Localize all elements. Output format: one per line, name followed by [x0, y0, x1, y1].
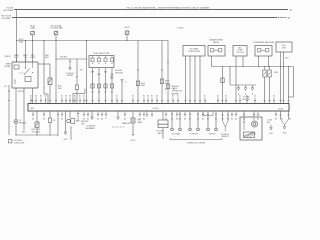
sensor connector wires [171, 112, 218, 131]
wire eld out 2 [282, 52, 284, 104]
sensor pin labels [171, 114, 217, 116]
ECM pin numbers bottom [32, 118, 291, 120]
ECM pin stubs top [30, 98, 275, 104]
pin label A26 [31, 107, 159, 110]
wire resistor to ECM [49, 85, 51, 104]
ground G101 [63, 111, 67, 141]
injector assembly box [89, 56, 114, 68]
connector C5 [75, 85, 78, 90]
svg-text:B4: B4 [289, 118, 291, 120]
spare [0, 0, 1, 1]
svg-text:(10A): (10A) [30, 27, 35, 30]
wire igniter to ECM [76, 90, 78, 104]
injector wires to ECM [91, 68, 113, 104]
svg-text:BLK: BLK [45, 57, 49, 59]
gear wire labels [185, 58, 201, 62]
wire solenoid to ground bus [36, 127, 38, 135]
svg-text:B4: B4 [139, 118, 141, 120]
svg-text:SWITCH: SWITCH [209, 133, 216, 135]
wire cond relay out 2 [268, 56, 269, 67]
wire fuse32 to main relay [32, 36, 33, 62]
svg-text:No.33: No.33 [124, 27, 129, 29]
ground G102 [131, 123, 135, 142]
label knock sensor [221, 134, 231, 138]
wire bus drop 2 [161, 41, 163, 104]
svg-text:B4: B4 [124, 118, 126, 120]
zone ref C 10/30 [177, 27, 184, 29]
svg-text:B2: B2 [215, 114, 217, 116]
label interlock system [187, 142, 205, 144]
svg-text:COOLING FAN: COOLING FAN [50, 27, 64, 30]
svg-text:CLUTCH: CLUTCH [236, 52, 244, 54]
wire fuse24 to ECM [55, 58, 57, 103]
wire O2 to ground bus [15, 124, 17, 135]
fan bus wire [212, 66, 294, 67]
svg-text:EGR CONT: EGR CONT [32, 129, 41, 131]
ECM pin stubs bottom [32, 112, 277, 117]
label radiator fan relay [209, 39, 223, 44]
svg-text:14-PIN CONN: 14-PIN CONN [14, 142, 25, 144]
label WHT BLU [165, 80, 170, 84]
wire relay out 2 [22, 88, 26, 134]
spare2 [0, 0, 1, 1]
bus wire HOT IN ON OR START [12, 17, 287, 19]
svg-text:ECM: ECM [278, 108, 283, 110]
wire PS switch [48, 111, 56, 136]
label YEL [80, 69, 83, 71]
svg-text:CONNECTOR: CONNECTOR [172, 91, 184, 93]
to tachometer arrow [65, 59, 75, 77]
wire fuse33 to bus [126, 35, 127, 41]
svg-text:B4: B4 [87, 118, 89, 120]
dashed ref wire [112, 111, 124, 127]
svg-text:2: 2 [190, 61, 191, 63]
label BLK YEL 2 [18, 91, 25, 93]
resistor box R2 [158, 120, 168, 128]
wire ignition feed to ECM [121, 80, 127, 104]
label ECM [278, 108, 283, 110]
wire ac to fan bus [242, 56, 243, 67]
label No.41 [19, 39, 23, 43]
svg-text:B4: B4 [143, 118, 145, 120]
oxygen sensor O2 [14, 120, 18, 124]
svg-text:B4: B4 [184, 118, 186, 120]
label YEL BLK [45, 55, 50, 59]
bus wire fused B+ [16, 40, 168, 41]
svg-text:A/T GEAR: A/T GEAR [190, 48, 199, 51]
to gauge assembly arrow [86, 111, 96, 130]
svg-text:OR START: OR START [2, 17, 12, 20]
wire right to ECM [287, 66, 289, 104]
A/T switch wires to ECM [184, 56, 201, 104]
svg-text:A/T GEAR: A/T GEAR [172, 132, 181, 135]
svg-text:INTERLOCK SYSTEM: INTERLOCK SYSTEM [187, 142, 205, 144]
wire color labels main relay [14, 55, 35, 59]
label EGR [32, 129, 42, 133]
wire to resistor [49, 64, 51, 78]
label fuse No.33 [124, 27, 129, 29]
svg-text:B4: B4 [32, 118, 34, 120]
wire fused B+ branch [43, 40, 48, 104]
twisted pair to knock sensor [221, 111, 229, 132]
wire bus drop 1 [137, 41, 139, 104]
injector connectors [91, 84, 114, 88]
svg-text:C10: C10 [4, 86, 7, 88]
label C101 [14, 140, 25, 144]
label MIL lamp [138, 120, 143, 124]
wire to MIL lamp [132, 111, 134, 118]
ELD unit box [276, 42, 292, 52]
bus wire HOT AT ALL TIMES [14, 9, 288, 11]
svg-text:METER: METER [67, 75, 74, 77]
wire bus drop 3 [167, 41, 169, 104]
label BLK WHT [141, 83, 146, 87]
svg-text:PGM-FI: PGM-FI [4, 56, 11, 58]
fuse No.33 [125, 30, 129, 35]
svg-text:B4: B4 [176, 118, 178, 120]
svg-text:B4: B4 [101, 118, 103, 120]
wire fused B+ to relay coil [25, 40, 26, 62]
wire relay feed right [38, 63, 50, 65]
svg-text:B4: B4 [257, 118, 259, 120]
wire tie below ECM [203, 111, 213, 116]
label HOT AT ALL TIMES [4, 7, 14, 12]
svg-text:G101: G101 [63, 139, 67, 141]
svg-text:POSITION: POSITION [190, 133, 199, 135]
net label A2 [290, 8, 292, 11]
wire elbow to ECM [72, 89, 85, 104]
pin labels A B [165, 88, 175, 91]
svg-text:ASSEMBLY: ASSEMBLY [86, 127, 96, 130]
label BLU WHT [58, 86, 62, 91]
fuse No.24 [54, 31, 58, 36]
svg-text:B2: B2 [207, 114, 209, 116]
indicator lamp MIL [131, 118, 135, 123]
fuse No.32 [31, 31, 35, 36]
svg-text:FUEL INJECTORS: FUEL INJECTORS [94, 53, 111, 55]
svg-text:B4: B4 [83, 118, 85, 120]
label GRN WHT [171, 94, 179, 96]
edge label C10 [4, 86, 7, 88]
idle air control valve IACV [240, 117, 262, 140]
wire relay out 1 [15, 88, 17, 119]
wire tach bus [56, 58, 87, 60]
svg-text:WHT: WHT [58, 88, 62, 90]
svg-text:FIG. 21 1992 ACURA INTEGRA —: FIG. 21 1992 ACURA INTEGRA — ENGINE PERF… [127, 6, 210, 9]
svg-text:B2: B2 [179, 114, 181, 116]
ECM connector strip [28, 104, 289, 112]
label O2 sensor [19, 120, 27, 124]
wire to resistor box [162, 111, 164, 120]
label HOT IN ON OR START [1, 16, 12, 20]
A/T gear position switch box [183, 46, 205, 57]
to fan motors arrows [237, 85, 254, 95]
radiator fan relay K2 [208, 46, 225, 57]
svg-text:YEL: YEL [110, 74, 113, 76]
label fuse No.32 [30, 25, 35, 29]
connector C1 [136, 81, 139, 86]
ground bus wire [15, 134, 58, 135]
svg-text:16-1 EC: 16-1 EC [153, 108, 160, 110]
svg-text:(IGN SW): (IGN SW) [115, 73, 123, 75]
title text [127, 6, 210, 9]
wires into main relay [17, 59, 26, 62]
wire fuse24 down [55, 36, 56, 59]
svg-text:BLU/: BLU/ [58, 86, 62, 88]
condenser fan relay K3 [255, 46, 272, 57]
svg-text:ALL TIMES: ALL TIMES [4, 9, 14, 12]
stubs service [146, 111, 153, 117]
svg-text:G401: G401 [282, 133, 286, 135]
resistor R1 [48, 78, 52, 85]
svg-text:B1: B1 [288, 17, 290, 19]
connector C3 [166, 84, 169, 89]
connector C2 [160, 79, 163, 84]
svg-text:(BLU): (BLU) [158, 133, 163, 135]
main relay internals [14, 62, 33, 84]
net label B1 [288, 17, 290, 19]
diode D2 [268, 67, 271, 104]
wire fan bus to ECM [221, 67, 223, 104]
svg-text:YEL/BLK: YEL/BLK [60, 56, 68, 58]
svg-text:B2: B2 [171, 114, 173, 116]
injector wire labels [91, 72, 114, 76]
wire fan motor bar [230, 67, 256, 86]
label service check connector [172, 86, 184, 93]
wires to IACV [243, 111, 255, 117]
label PGM-FI main relay [4, 56, 11, 68]
connector C101 symbol [9, 140, 12, 143]
svg-text:C 10/30: C 10/30 [177, 27, 184, 29]
svg-text:B4: B4 [235, 118, 237, 120]
wire relay out to ECM [31, 88, 33, 104]
svg-text:GRN: GRN [30, 57, 35, 59]
ECM pin numbers top [30, 94, 275, 97]
wire fan relay out [211, 56, 213, 67]
svg-text:RELAY: RELAY [4, 65, 11, 68]
svg-text:B4: B4 [97, 118, 99, 120]
label YEL BLK tach [60, 56, 68, 58]
wire left ground run [8, 85, 10, 135]
wire resistor to ground [156, 128, 164, 139]
svg-text:CONDENSER FAN RELAY: CONDENSER FAN RELAY [253, 41, 276, 44]
svg-text:P: P [199, 61, 200, 63]
svg-text:BLK/YEL: BLK/YEL [18, 91, 25, 93]
svg-text:RELAY: RELAY [213, 41, 220, 44]
svg-text:A26: A26 [31, 107, 34, 110]
svg-text:SENSOR: SENSOR [221, 136, 229, 138]
MAP sensor cluster [67, 111, 81, 140]
svg-text:G102: G102 [131, 140, 135, 142]
label data link [122, 122, 131, 125]
svg-text:B2: B2 [189, 114, 191, 116]
svg-text:B4: B4 [61, 118, 63, 120]
wire cond relay out 1 [258, 56, 259, 67]
wire bus1 to main relay [16, 9, 17, 62]
label fuel injectors [94, 53, 111, 55]
injectors INJ1-INJ4 [91, 56, 114, 64]
label BLK YEL ign [115, 70, 123, 74]
labels sensor group [172, 132, 216, 135]
solenoid SOL1 [35, 122, 39, 127]
wire ECM ground right [57, 111, 59, 135]
svg-text:SENSOR: SENSOR [19, 122, 27, 124]
svg-text:YEL: YEL [80, 69, 83, 71]
ref arrow C402 [267, 119, 273, 135]
stub C1 [105, 111, 107, 120]
label to fan motors [242, 95, 250, 100]
wire right edge jog [288, 67, 294, 98]
svg-text:GRN/WHT: GRN/WHT [171, 94, 179, 96]
svg-text:B4: B4 [275, 118, 277, 120]
wire igniter column [76, 59, 78, 85]
svg-text:B2: B2 [197, 114, 199, 116]
svg-text:C402: C402 [269, 133, 273, 135]
svg-text:B4: B4 [43, 118, 45, 120]
label fuse No.24 [50, 24, 64, 29]
svg-text:POSITION SW: POSITION SW [188, 51, 200, 53]
svg-text:A2: A2 [290, 8, 292, 11]
pin ref labels [111, 75, 114, 80]
label grn [274, 72, 279, 74]
PGM-FI main relay K1 [12, 62, 38, 88]
group bracket [170, 138, 222, 140]
svg-text:B4: B4 [231, 118, 233, 120]
spare seg [55, 36, 57, 59]
svg-text:1: 1 [195, 58, 196, 60]
wire ac to ECM [235, 56, 237, 104]
diode D1 [263, 67, 266, 104]
label condenser fan relay [253, 41, 276, 44]
wire bus drop injector feed [85, 40, 87, 104]
wire eld out 1 [279, 52, 289, 104]
wire service check [77, 111, 89, 125]
svg-text:DATA LINK: DATA LINK [122, 122, 131, 125]
connector C4 [221, 78, 224, 83]
svg-text:B4: B4 [202, 118, 204, 120]
injector pin labels [92, 91, 114, 94]
wire ECM to solenoid [36, 111, 38, 122]
svg-text:C1: C1 [105, 118, 107, 120]
svg-text:B4: B4 [253, 118, 255, 120]
twisted pair ground G401 [279, 111, 289, 135]
A/C compressor clutch box [233, 46, 247, 57]
